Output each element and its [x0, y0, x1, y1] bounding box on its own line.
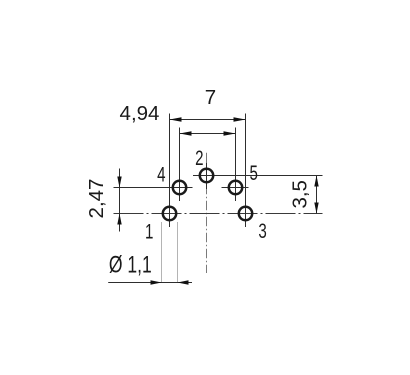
svg-text:Ø 1,1: Ø 1,1 [109, 252, 152, 278]
svg-text:3: 3 [258, 219, 266, 243]
svg-text:3,5: 3,5 [289, 180, 312, 209]
svg-text:2: 2 [195, 146, 203, 170]
svg-text:7: 7 [205, 86, 216, 109]
svg-text:1: 1 [145, 219, 153, 243]
svg-text:2,47: 2,47 [85, 179, 108, 219]
svg-text:4,94: 4,94 [120, 102, 160, 125]
svg-text:4: 4 [157, 162, 165, 186]
svg-text:5: 5 [249, 160, 257, 184]
